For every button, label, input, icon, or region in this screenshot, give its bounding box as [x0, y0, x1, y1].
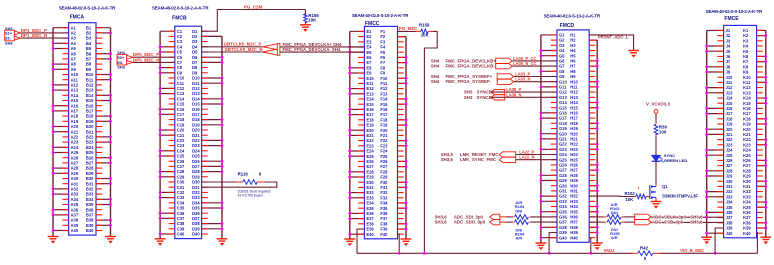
svg-text:DNI: DNI	[611, 210, 618, 215]
FMCC pin stubs	[358, 31, 404, 234]
harness connector for GBTCLK pair	[263, 44, 280, 56]
FMCA right GND bus	[96, 28, 112, 237]
svg-text:FMC_FPGA_DEVCLKB-: FMC_FPGA_DEVCLKB-	[446, 64, 496, 69]
wire R39 to LED	[655, 136, 657, 155]
svg-text:10K: 10K	[421, 33, 430, 38]
svg-text:ADC_SDO_3p0: ADC_SDO_3p0	[454, 220, 486, 225]
svg-text:V_VCXO3.3: V_VCXO3.3	[646, 102, 670, 107]
svg-text:LA22_N: LA22_N	[519, 155, 534, 160]
net label LA00_P_CC	[513, 56, 536, 61]
svg-text:SSM3K3TMPV,L3F: SSM3K3TMPV,L3F	[662, 194, 698, 199]
wire PRSNT_ADC_L from FMCD H1	[589, 35, 633, 49]
connector DP1 (diff pair input)	[5, 26, 21, 46]
svg-text:10K: 10K	[625, 197, 634, 202]
svg-text:SEAM-40-02.0-S-10-2-A-K-TR: SEAM-40-02.0-S-10-2-A-K-TR	[59, 6, 116, 11]
connector FMCB title	[152, 6, 209, 11]
svg-text:for KC705 board: for KC705 board	[238, 194, 263, 198]
connector FMCA title	[59, 6, 116, 11]
net label LA03_N	[515, 77, 530, 82]
svg-text:DNI: DNI	[515, 208, 522, 213]
wire FMCD G39 down to rail	[549, 233, 557, 254]
connector FMCB body	[175, 26, 202, 238]
FMCC left GND bus	[348, 31, 364, 239]
svg-text:GBTCLK0_M2C_N: GBTCLK0_M2C_N	[225, 47, 263, 52]
ground at FMCB right bus	[217, 237, 228, 246]
svg-text:PRSNT_ADC_L: PRSNT_ADC_L	[598, 35, 629, 40]
FMCE pin stubs	[717, 30, 762, 233]
svg-text:SH3: SH3	[5, 40, 13, 45]
svg-text:LMK_SYNC_FMC: LMK_SYNC_FMC	[460, 157, 497, 162]
wire LA08_P to FMCD G12	[491, 91, 557, 93]
ground at FMCC right bus	[401, 237, 412, 246]
svg-text:SEAM-40-02.0-S-10-2-A-K-TR: SEAM-40-02.0-S-10-2-A-K-TR	[544, 14, 601, 19]
svg-text:FMC_FPGA_SYSREF-: FMC_FPGA_SYSREF-	[446, 79, 492, 84]
ground below R155	[300, 23, 311, 32]
wire FMCD H32 to R102	[589, 195, 633, 197]
svg-text:FMCD: FMCD	[560, 23, 575, 29]
resistor R195 (A/R DNI)	[603, 220, 625, 240]
net label FMC_FPGA_DEVCLKA- SH4	[283, 47, 341, 52]
svg-text:SEAM-40-02.0-S-10-2-A-K-TR: SEAM-40-02.0-S-10-2-A-K-TR	[706, 9, 763, 14]
svg-text:R42: R42	[640, 246, 649, 251]
net label VIO_B_M2C	[680, 248, 704, 253]
FMCE right GND bus	[757, 30, 768, 237]
port FMC_FPGA_SYSREF+	[431, 74, 514, 79]
junction dots on rail	[398, 252, 717, 255]
wire Q1 source to ground	[655, 198, 657, 201]
port LMK_RESET_FMC	[441, 152, 516, 157]
wire DP1_M2C_N to FMCA A3	[20, 37, 68, 39]
svg-text:GBTCLK0_M2C_P: GBTCLK0_M2C_P	[224, 42, 262, 47]
ground at FMCC left bus	[344, 237, 355, 246]
resistor R158 10K	[416, 23, 434, 38]
FMCC pin names E1-E40 / F1-F40	[366, 29, 388, 237]
ground at FMCE left bus	[701, 235, 712, 244]
svg-text:SH3: SH3	[464, 95, 473, 100]
net label LA08_P	[506, 87, 521, 92]
port FMC_FPGA_SYSREF-	[431, 79, 514, 84]
svg-text:Q1: Q1	[662, 184, 668, 189]
connector FMCC title	[352, 13, 409, 18]
svg-text:SH3,6: SH3,6	[441, 157, 454, 162]
svg-text:A/R: A/R	[611, 235, 618, 240]
wire LED to Q1 drain	[655, 161, 657, 183]
svg-text:A40: A40	[71, 228, 79, 233]
FMCD right GND bus	[589, 40, 598, 243]
FMCA left GND bus	[52, 28, 69, 237]
connector FMCE designator	[724, 16, 739, 22]
ground below Q1	[651, 200, 662, 209]
resistor R42 0	[632, 246, 659, 262]
port ADC_SCLK_3p0	[635, 214, 703, 219]
svg-text:100: 100	[659, 129, 667, 134]
FMCB pin stubs	[169, 31, 208, 234]
svg-text:DP1_M2C_N: DP1_M2C_N	[21, 33, 48, 38]
svg-text:SH3,6: SH3,6	[435, 220, 448, 225]
wire V_VCXO3.3 to R39	[655, 113, 657, 122]
resistor R193 (A/R DNI)	[500, 200, 531, 219]
svg-text:PG_C2M: PG_C2M	[244, 4, 263, 9]
net label LA00_N_CC	[513, 61, 536, 66]
wire DP0_M2C_N to FMCB C7	[133, 61, 175, 63]
wire PG_C2M from FMCB D1 to R155	[202, 10, 306, 32]
net label PRSNT_ADC_L	[598, 35, 629, 40]
svg-text:R102: R102	[625, 191, 636, 196]
svg-text:LA00_N_CC: LA00_N_CC	[513, 61, 536, 66]
svg-text:E40: E40	[366, 232, 374, 237]
connector FMCA designator	[70, 14, 85, 20]
ground at FMCD left bus	[536, 241, 547, 250]
svg-text:K40: K40	[743, 231, 751, 236]
wire LA22_N to FMCD G25	[516, 159, 557, 161]
wire FMCC F40 down to rail	[398, 234, 400, 253]
connector FMCA body	[69, 23, 96, 235]
net label LA22_P	[519, 149, 534, 154]
FMCC right GND bus	[398, 37, 408, 239]
port FMC_FPGA_DEVCLKB+	[431, 58, 513, 63]
svg-text:10K: 10K	[308, 18, 317, 23]
ground at FMCA left bus	[48, 235, 59, 244]
wire DP0_M2C_P to FMCB C6	[133, 56, 175, 58]
wire R193 to FMCD G36	[531, 216, 557, 218]
port LMK_SYNC_FMC	[441, 157, 516, 162]
FMCA pin stubs	[62, 28, 102, 231]
FMCD left GND bus	[540, 35, 558, 243]
svg-text:B40: B40	[86, 228, 94, 233]
resistor R39 100	[654, 122, 667, 136]
wire GBTCLK0_M2C_N from FMCB D5	[202, 51, 263, 53]
wire rail up to FMCE J39	[715, 228, 724, 253]
connector FMCC designator	[365, 21, 380, 27]
connector FMCC body	[364, 26, 397, 238]
VADJ rail (bottom horizontal wire)	[357, 252, 757, 254]
ground at FMCD right bus	[592, 241, 603, 250]
svg-text:J40: J40	[726, 231, 734, 236]
port SYNCB+	[464, 89, 505, 94]
port ADC_CSB_3p0	[635, 219, 703, 224]
svg-text:R158: R158	[419, 23, 430, 28]
wire FMCD H36 to R162	[589, 216, 603, 218]
svg-text:0: 0	[259, 171, 262, 176]
ground at FMCE right bus	[760, 235, 771, 244]
svg-text:H40: H40	[570, 235, 578, 240]
wire LA03_N to FMCD G10	[514, 81, 557, 83]
svg-text:PG_M2C: PG_M2C	[399, 26, 418, 31]
svg-text:SH3: SH3	[117, 65, 125, 70]
net label DP0_M2C_P	[133, 52, 159, 57]
ground below PRSNT_ADC_L	[628, 49, 639, 58]
power port V_VCXO3.3	[646, 102, 670, 114]
ground at FMCB left bus	[155, 237, 166, 246]
FMCA pin names A1-A40 / B1-B40	[71, 25, 95, 233]
connector FMCE body	[724, 25, 757, 237]
svg-text:F40: F40	[380, 232, 388, 237]
svg-text:FMCB: FMCB	[172, 15, 187, 21]
port ADC_SDI_3p0	[435, 214, 500, 219]
svg-text:LA08_N: LA08_N	[506, 92, 521, 97]
connector FMCD title	[544, 14, 601, 19]
wire R162 to FMCE J37	[625, 216, 724, 219]
wire R194 to FMCD G37	[531, 221, 557, 223]
net label LA08_N	[506, 92, 521, 97]
FMCB right GND bus	[202, 36, 224, 238]
wire FMC_FPGA_DEVCLKA+ to FMCC E4	[280, 46, 365, 48]
connector DP0 (diff pair input)	[117, 50, 133, 70]
svg-text:SH3,6: SH3,6	[690, 220, 703, 225]
svg-text:R116: R116	[238, 171, 249, 176]
resistor R155 10K	[304, 13, 320, 23]
net label DP0_M2C_N	[133, 57, 160, 62]
LED SYNC GREEN LED	[652, 153, 688, 163]
connector FMCB designator	[172, 15, 187, 21]
svg-text:VIO_B_M2C: VIO_B_M2C	[680, 248, 704, 253]
FMCE pin names J1-J40 / K1-K40	[726, 28, 752, 236]
net label DP1_M2C_N	[21, 33, 48, 38]
wire from R158 down to VADJ rail	[424, 31, 437, 253]
svg-text:GREEN LED: GREEN LED	[664, 158, 687, 163]
wire from R116 back to FMCB D31	[202, 182, 277, 187]
svg-text:SEAM-40-02.0-S-10-2-A-K-TR: SEAM-40-02.0-S-10-2-A-K-TR	[152, 6, 209, 11]
wire LA08_N to FMCD G13	[491, 96, 557, 98]
net label LA03_P	[515, 72, 530, 77]
svg-text:SEAM-40-02.0-S-10-2-A-K-TR: SEAM-40-02.0-S-10-2-A-K-TR	[352, 13, 409, 18]
wire LA03_P to FMCD G9	[514, 76, 557, 78]
wire FMCC E39 down to VADJ rail	[357, 229, 364, 253]
FMCB left GND bus	[159, 31, 175, 239]
svg-text:SYNCB-: SYNCB-	[477, 95, 494, 100]
svg-text:FMCE: FMCE	[724, 16, 739, 22]
svg-text:A/R: A/R	[515, 236, 522, 241]
svg-text:1: 1	[638, 186, 640, 190]
net label GBTCLK0_M2C_P	[224, 42, 262, 47]
FMCB pin names C1-C40 / D1-D40	[177, 29, 201, 237]
net label PG_M2C	[399, 26, 418, 31]
wire FMCD H37 to R195	[589, 221, 603, 223]
resistor R194 (A/R DNI)	[500, 220, 531, 241]
wire DP1_M2C_P to FMCA A2	[20, 32, 68, 34]
transistor Q1 SSM3K3TMPV,L3F	[638, 184, 699, 200]
svg-text:VADJ: VADJ	[604, 248, 616, 253]
ground at FMCA right bus	[105, 235, 116, 244]
net label DP1_M2C_P	[21, 28, 47, 33]
svg-text:ADC_CSB_3p0: ADC_CSB_3p0	[652, 220, 684, 225]
port FMC_FPGA_DEVCLKB-	[431, 63, 513, 68]
svg-text:0: 0	[644, 256, 647, 261]
resistor R102 10K (gate)	[625, 191, 647, 202]
connector FMCD designator	[560, 23, 575, 29]
wire LA00_P_CC to FMCD G6	[512, 60, 557, 62]
svg-text:FMCA: FMCA	[70, 14, 85, 20]
svg-text:DP0_M2C_N: DP0_M2C_N	[133, 57, 160, 62]
net label LA22_N	[519, 155, 534, 160]
wire R195 to FMCE J38	[625, 221, 724, 223]
svg-text:LA03_N: LA03_N	[515, 77, 530, 82]
wire PG_M2C from FMCC F1	[398, 30, 416, 32]
net label PG_C2M	[244, 4, 263, 9]
port ADC_SDO_3p0	[435, 219, 500, 224]
svg-text:FMC_FPGA_DEVCLKA- SH4: FMC_FPGA_DEVCLKA- SH4	[283, 47, 341, 52]
connector FMCE title	[706, 9, 763, 14]
FMCD pin names G1-G40 / H1-H40	[559, 33, 579, 241]
port SYNCB-	[464, 95, 505, 100]
resistor R116 0 ohm (D30/31 short)	[202, 171, 264, 184]
wire LA22_P to FMCD G24	[516, 154, 557, 156]
FMCE left GND bus	[705, 30, 723, 237]
svg-text:C40: C40	[177, 232, 185, 237]
FMCD pin stubs	[551, 35, 596, 238]
wire LA00_N_CC to FMCD G7	[512, 65, 557, 67]
svg-text:G40: G40	[559, 235, 567, 240]
svg-text:SH4: SH4	[431, 79, 440, 84]
connector FMCD body	[557, 30, 589, 242]
net label VADJ	[604, 248, 616, 253]
net label FMC_FPGA_DEVCLKA+ SH4	[283, 42, 342, 47]
svg-text:D40: D40	[192, 232, 200, 237]
note D30/31 short required for KC705 board	[238, 190, 271, 198]
wire FMCD H40 down to rail	[589, 238, 591, 254]
svg-text:SH4: SH4	[431, 64, 440, 69]
wire rail up to FMCE K40	[756, 232, 759, 253]
resistor R162 (A/R DNI)	[603, 202, 625, 219]
wire GBTCLK0_M2C_P from FMCB D4	[202, 46, 263, 48]
wire FMC_FPGA_DEVCLKA- to FMCC E5	[280, 51, 365, 53]
net label GBTCLK0_M2C_N	[225, 47, 263, 52]
